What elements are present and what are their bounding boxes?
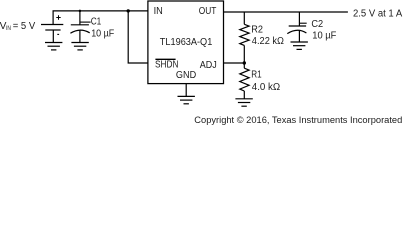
wire R2 lower lead bbox=[243, 45, 245, 63]
wire output rail bbox=[224, 11, 348, 13]
node junction SHDN tap bbox=[127, 9, 130, 12]
ground (C1) bbox=[71, 43, 88, 50]
svg-text:C1: C1 bbox=[91, 16, 102, 27]
ground (input source) bbox=[45, 43, 62, 50]
label C1 value bbox=[91, 16, 115, 39]
ground (IC GND) bbox=[178, 96, 195, 103]
wire riser to input rail bbox=[52, 11, 54, 25]
svg-text:Copyright © 2016, Texas Instru: Copyright © 2016, Texas Instruments Inco… bbox=[194, 115, 402, 125]
wire VIN stub bbox=[41, 24, 63, 26]
svg-text:C2: C2 bbox=[311, 19, 323, 30]
label leader C2 bbox=[299, 22, 306, 24]
resistor R1 bbox=[240, 68, 249, 91]
wire R2 upper lead bbox=[243, 12, 245, 24]
node junction ADJ feedback bbox=[243, 61, 246, 64]
wire input rail to IN pin bbox=[53, 10, 149, 12]
svg-text:R2: R2 bbox=[251, 24, 263, 35]
wire R1 lower lead bbox=[243, 91, 245, 99]
wire SHDN branch bbox=[128, 11, 148, 63]
wire C1 upper lead bbox=[79, 11, 81, 25]
svg-text:10 µF: 10 µF bbox=[312, 30, 336, 41]
input source positive plate marking bbox=[56, 15, 60, 19]
wire ADJ pin to node bbox=[224, 62, 245, 64]
label leader C1 bbox=[80, 21, 91, 23]
label R1 value bbox=[251, 69, 280, 93]
wire input source to ground bbox=[52, 30, 54, 43]
wire R1 upper lead bbox=[243, 63, 245, 68]
node junction C1 tap bbox=[79, 10, 82, 13]
svg-text:10 µF: 10 µF bbox=[91, 28, 114, 39]
IC U1 regulator TL1963A-Q1 box bbox=[148, 1, 224, 84]
label R2 value bbox=[251, 24, 284, 47]
label C2 value bbox=[311, 19, 336, 41]
svg-text:4.0 kΩ: 4.0 kΩ bbox=[252, 82, 281, 93]
svg-text:OUT: OUT bbox=[199, 6, 217, 17]
wire GND pin to ground bbox=[185, 84, 187, 97]
ground (C2) bbox=[291, 42, 308, 49]
svg-text:IN: IN bbox=[6, 25, 11, 32]
ground (R1) bbox=[235, 99, 252, 106]
svg-text:IN: IN bbox=[154, 6, 163, 17]
resistor R2 bbox=[240, 24, 249, 45]
svg-text:ADJ: ADJ bbox=[200, 60, 217, 71]
input source negative marking bbox=[57, 33, 59, 35]
svg-text:GND: GND bbox=[176, 70, 196, 81]
node VIN label bbox=[0, 21, 36, 32]
wire C2 upper lead bbox=[298, 12, 300, 26]
capacitor C2 bbox=[287, 26, 306, 42]
capacitor C1 bbox=[70, 25, 89, 43]
svg-text:2.5 V at 1 A: 2.5 V at 1 A bbox=[353, 8, 403, 19]
svg-text:R1: R1 bbox=[251, 69, 262, 80]
svg-text:4.22 kΩ: 4.22 kΩ bbox=[252, 36, 285, 47]
input source bottom plate bbox=[45, 29, 60, 31]
svg-text:TL1963A-Q1: TL1963A-Q1 bbox=[160, 37, 213, 48]
svg-text:= 5 V: = 5 V bbox=[13, 21, 36, 32]
